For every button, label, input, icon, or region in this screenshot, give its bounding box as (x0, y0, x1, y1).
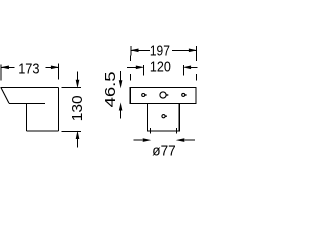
46.5 bottom (points up) (119, 102, 123, 110)
dim 120 right tick (182, 65, 184, 76)
side view right edge (57, 88, 59, 132)
130 top (points down) (76, 80, 80, 89)
arrowheads (0, 49, 197, 142)
side view front diagonal (1, 88, 9, 104)
dia77 left (points right) (143, 138, 152, 142)
120 right (points left) (183, 66, 192, 70)
svg-text:197: 197 (150, 42, 170, 59)
svg-text:46.5: 46.5 (102, 71, 119, 107)
hole ticks (145, 94, 147, 95)
dim 130 bottom ext line (62, 130, 81, 132)
dim 173 right ext tick (58, 64, 60, 80)
front lower box (147, 103, 179, 131)
box hole (162, 115, 165, 118)
dia77 left arrow tail (134, 139, 143, 141)
plate right hole (182, 93, 185, 96)
svg-text:130: 130 (69, 95, 86, 121)
dim 120 left tick (143, 65, 145, 76)
plate center hole (160, 92, 166, 98)
46.5 top (points down) (119, 80, 123, 88)
side view bottom line (27, 130, 59, 132)
173 left (points left) (0, 66, 9, 70)
dim 46.5 bottom arrow tail (120, 110, 122, 118)
dia77 left ext tick (150, 128, 152, 134)
svg-text:120: 120 (150, 59, 171, 76)
120 left (points right) (136, 66, 145, 70)
dia77 right arrow tail (185, 139, 195, 141)
svg-text:173: 173 (18, 60, 39, 77)
dim 173 left ext tick (0, 65, 2, 81)
dim 197 right ext segments (195, 56, 197, 62)
side view lip line (9, 102, 45, 104)
dim 197 line right part (172, 49, 197, 51)
holes (142, 92, 185, 118)
dim 46.5 top arrow tail (120, 71, 122, 81)
173 right (points right) (51, 66, 59, 70)
svg-text:ø77: ø77 (152, 142, 175, 159)
dim 120 left arrow tail (127, 66, 136, 68)
130 bottom (points up) (76, 131, 80, 140)
side view top line (0, 87, 58, 89)
dim 197 left ext tick (130, 46, 132, 56)
dim 173 line left part (1, 66, 15, 68)
dia77 right (points left) (176, 138, 185, 142)
197 right (points right) (189, 49, 197, 53)
dim 130 top arrow tail (77, 71, 79, 80)
front plate (130, 88, 196, 104)
dim 173 line right part (46, 66, 59, 68)
labels (18, 42, 176, 159)
197 left (points left) (130, 49, 138, 53)
dim 130 top ext line (62, 87, 81, 89)
dim 130 bottom arrow tail (77, 138, 79, 147)
dim 197 right ext tick (196, 46, 198, 56)
dim 120 right arrow tail (191, 66, 198, 68)
dia77 right ext tick (176, 128, 178, 134)
plate left hole (142, 94, 145, 97)
side view step vertical (26, 103, 28, 131)
dim 197 line left part (131, 49, 150, 51)
dim 197 left ext segments (130, 56, 132, 62)
